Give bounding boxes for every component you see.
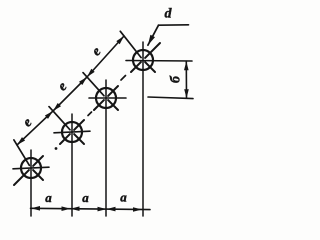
dimension line b (vertical with arrows)	[184, 61, 189, 98]
hole 2 symbol	[49, 107, 90, 216]
hole 3 symbol	[83, 73, 126, 216]
dimension chain line e	[17, 36, 124, 145]
leader line d	[148, 25, 189, 45]
dimension line b extension (lower)	[148, 97, 193, 99]
svg-text:a: a	[45, 190, 52, 205]
dimension line a (bottom chain)	[31, 206, 151, 212]
svg-text:a: a	[120, 190, 127, 205]
svg-text:d: d	[165, 7, 173, 22]
svg-text:a: a	[82, 190, 89, 205]
svg-text:б: б	[169, 75, 184, 83]
hole 1 symbol	[13, 140, 49, 216]
hole axis dash-dot marks	[55, 76, 126, 150]
hole 4 symbol	[120, 31, 192, 216]
